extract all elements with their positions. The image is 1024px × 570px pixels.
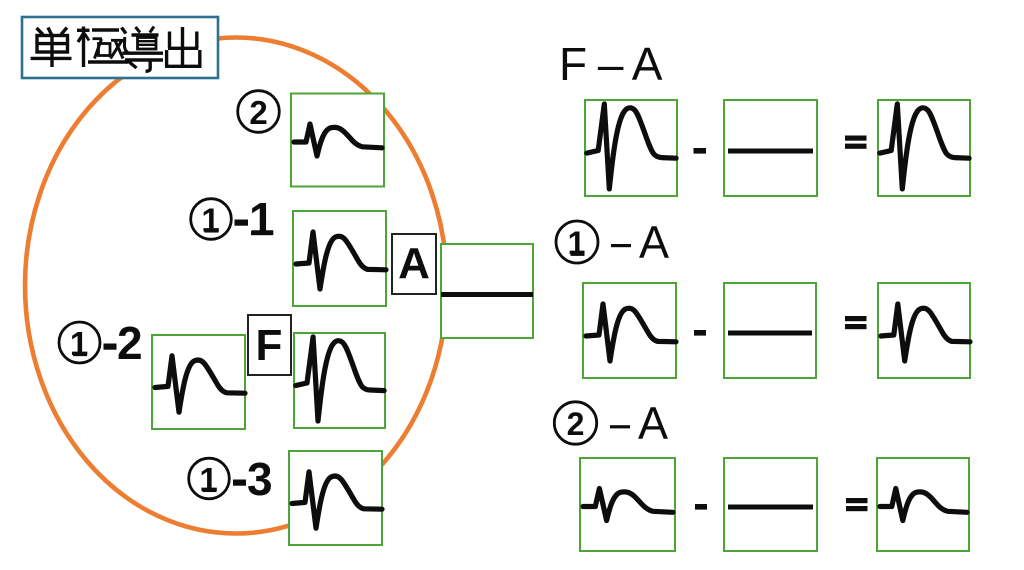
- equation circled 1: [556, 221, 598, 263]
- svg-text:A: A: [398, 239, 430, 288]
- label -1: [235, 193, 275, 245]
- lead 1-1 waveform box: [293, 211, 386, 306]
- label box A: [392, 234, 436, 294]
- row2 subtrahend flat box: [724, 283, 816, 378]
- lead 1-3 waveform box: [289, 451, 382, 545]
- svg-text:1: 1: [70, 325, 88, 362]
- label circled 1 (1-1): [191, 199, 232, 240]
- equation circled 2: [554, 402, 596, 444]
- row1 subtrahend flat box: [724, 100, 817, 196]
- svg-text:F: F: [256, 321, 283, 370]
- lead 1-2 waveform box: [152, 335, 245, 429]
- row3 minuend waveform box: [580, 458, 675, 551]
- svg-text:1: 1: [249, 193, 275, 245]
- label circled 2: [238, 91, 280, 133]
- svg-text:1: 1: [199, 461, 217, 498]
- row3 equals sign: [846, 498, 868, 511]
- label -2: [104, 317, 143, 369]
- row1 equals sign: [845, 136, 867, 149]
- svg-text:2: 2: [117, 317, 143, 369]
- row3 subtrahend flat box: [724, 458, 817, 551]
- row1 minus sign: [694, 148, 707, 154]
- row2 equals sign: [845, 316, 867, 329]
- svg-text:3: 3: [247, 453, 273, 505]
- svg-text:F – A: F – A: [559, 38, 663, 90]
- equation minus A (row3 title): [610, 398, 668, 449]
- title box: [22, 17, 218, 78]
- lead 2 waveform box: [291, 94, 384, 187]
- svg-text:2: 2: [567, 406, 585, 442]
- row2 result waveform box: [878, 283, 970, 378]
- row1 minuend waveform box: [585, 100, 677, 196]
- row1 result waveform box: [878, 100, 970, 196]
- body outline ellipse: [25, 38, 447, 534]
- label circled 1 (1-3): [189, 458, 230, 499]
- equation minus A (row2 title): [611, 217, 669, 268]
- row2 minus sign: [694, 330, 706, 336]
- row3 result waveform box: [877, 458, 969, 551]
- label box F: [248, 315, 291, 375]
- lead F waveform box: [294, 333, 385, 428]
- label circled 1 (1-2): [59, 322, 100, 363]
- svg-text:1: 1: [201, 202, 219, 239]
- row2 minuend waveform box: [583, 283, 676, 378]
- svg-text:A: A: [639, 217, 669, 268]
- svg-text:2: 2: [249, 94, 267, 131]
- title text 単極導出 (drawn): [31, 27, 202, 72]
- label -3: [233, 453, 273, 505]
- electrode A flat waveform box: [441, 244, 533, 338]
- row3 minus sign: [695, 504, 707, 510]
- svg-text:A: A: [638, 398, 668, 449]
